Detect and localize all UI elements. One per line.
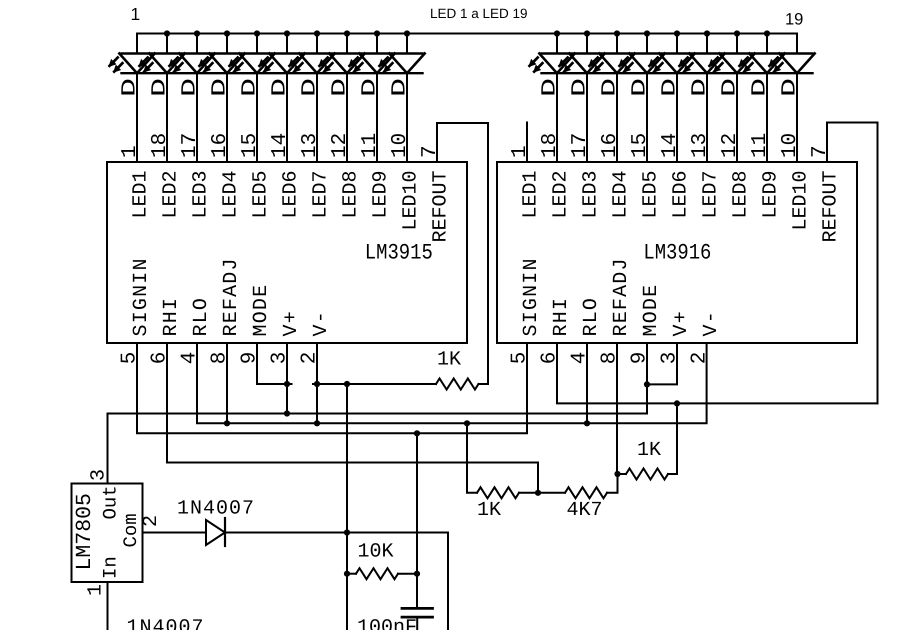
svg-text:18: 18 — [539, 133, 562, 158]
svg-text:LED3: LED3 — [580, 171, 603, 219]
svg-text:RHI: RHI — [550, 297, 573, 337]
LED D4 — [198, 54, 244, 74]
wire: D10 cathode to U1 — [406, 73, 408, 162]
svg-text:D: D — [689, 78, 712, 97]
svg-text:SIGNIN: SIGNIN — [130, 257, 153, 336]
junction: bus/LED anode — [314, 30, 320, 36]
wire: bus to LED anode — [286, 34, 288, 54]
LED D2 — [138, 54, 184, 74]
wire: D7 cathode to U1 — [316, 73, 318, 162]
capacitor C2 100nF — [402, 607, 433, 610]
wire: D11 cathode to U2 — [556, 73, 558, 162]
wire: D20 cathode line — [225, 533, 448, 630]
svg-text:18: 18 — [149, 133, 172, 158]
wire: right LED row cathode line — [542, 72, 813, 74]
junction: +5V / U1 V+ — [284, 410, 290, 416]
resistor R4 4K7 — [565, 487, 607, 498]
wire: R3 left lead — [467, 423, 477, 493]
svg-text:V+: V+ — [280, 310, 303, 336]
svg-text:V+: V+ — [670, 310, 693, 336]
svg-text:7: 7 — [419, 145, 442, 158]
svg-text:D: D — [269, 78, 292, 97]
wire: bus to LED anode — [736, 34, 738, 54]
junction: MODE/V+ tie — [284, 381, 290, 387]
wire: D1 cathode to U1 — [136, 73, 138, 162]
svg-text:5: 5 — [119, 352, 142, 365]
wire: SIGNIN-SIGNIN rail — [137, 343, 527, 433]
junction: V- / R1 rail — [314, 381, 320, 387]
LED D12 — [558, 54, 604, 74]
svg-text:LED1: LED1 — [520, 171, 543, 219]
svg-text:12: 12 — [719, 133, 742, 158]
svg-text:D: D — [119, 78, 142, 97]
wire: U3 Com to D20 anode — [143, 532, 207, 534]
LED D13 — [588, 54, 634, 74]
wire: R2 left lead — [347, 573, 356, 575]
wire: D19 cathode to U2 — [796, 73, 798, 162]
junction: bus/LED anode — [344, 30, 350, 36]
svg-text:11: 11 — [749, 133, 772, 158]
svg-text:1K: 1K — [477, 499, 501, 522]
op-amp U1 LM3915 body — [107, 162, 467, 343]
svg-text:RLO: RLO — [190, 297, 213, 337]
wire: D2 cathode to U1 — [166, 73, 168, 162]
wire: U2 pin1 stub — [526, 123, 528, 163]
svg-text:RHI: RHI — [160, 297, 183, 337]
svg-text:4K7: 4K7 — [567, 499, 603, 522]
diode D20 1N4007 — [206, 520, 225, 545]
svg-text:2: 2 — [689, 352, 712, 365]
wire: U2 RLO drop — [586, 343, 588, 423]
LED D16 — [678, 54, 724, 74]
wire: signal branch down — [416, 433, 418, 608]
LED D5 — [228, 54, 274, 74]
junction: bus/LED anode — [224, 30, 230, 36]
svg-text:4: 4 — [179, 352, 202, 365]
svg-text:MODE: MODE — [250, 284, 273, 337]
svg-text:LED2: LED2 — [550, 171, 573, 219]
svg-text:19: 19 — [785, 11, 803, 29]
svg-text:3: 3 — [88, 469, 111, 481]
svg-text:V-: V- — [700, 310, 723, 336]
wire: bus to LED anode — [406, 34, 408, 54]
wire: U2 MODE to V+ tie — [647, 343, 677, 384]
svg-text:10: 10 — [779, 133, 802, 158]
junction: branch down — [344, 381, 350, 387]
svg-text:REFOUT: REFOUT — [820, 171, 843, 243]
svg-text:LED8: LED8 — [730, 171, 753, 219]
svg-text:LED6: LED6 — [280, 171, 303, 219]
svg-text:LED5: LED5 — [640, 171, 663, 219]
junction: bus/LED anode — [194, 30, 200, 36]
svg-text:1N4007: 1N4007 — [177, 498, 255, 521]
wire: +5V rail 7805 Out to U2 MODE — [108, 343, 648, 484]
wire: U1 MODE to V+ tie — [257, 343, 292, 384]
wire: bus to LED anode — [346, 34, 348, 54]
svg-text:9: 9 — [629, 352, 652, 365]
svg-text:D: D — [719, 78, 742, 97]
svg-text:7: 7 — [809, 145, 832, 158]
wire: RLO/REFADJ/V- chain — [197, 343, 707, 423]
svg-text:12: 12 — [329, 133, 352, 158]
svg-text:RLO: RLO — [580, 297, 603, 337]
wire: D12 cathode to U2 — [586, 73, 588, 162]
wire: R1 to REFOUT drop — [479, 383, 489, 385]
LED D17 — [708, 54, 754, 74]
junction: V- U1 — [314, 420, 320, 426]
wire: U1 V- to R1 1K — [313, 383, 436, 385]
wire: right LED row anode line — [542, 52, 813, 54]
svg-text:D: D — [629, 78, 652, 97]
LED D10 — [378, 54, 424, 74]
LED D8 — [318, 54, 364, 74]
svg-text:13: 13 — [689, 133, 712, 158]
svg-text:In: In — [100, 556, 122, 579]
svg-text:14: 14 — [659, 133, 682, 158]
svg-text:Com: Com — [120, 513, 142, 547]
svg-text:LED8: LED8 — [340, 171, 363, 219]
svg-text:1N4007: 1N4007 — [127, 617, 205, 630]
svg-text:11: 11 — [359, 133, 382, 158]
junction: RLO U2 — [584, 420, 590, 426]
svg-text:4: 4 — [569, 352, 592, 365]
wire: bus to LED anode — [616, 34, 618, 54]
wire: R5 right lead up — [668, 403, 677, 474]
svg-text:1K: 1K — [637, 439, 661, 462]
svg-text:13: 13 — [299, 133, 322, 158]
svg-text:Out: Out — [100, 485, 122, 519]
wire: U1 REFOUT loop to R1 — [437, 123, 488, 384]
wire: D13 cathode to U2 — [616, 73, 618, 162]
junction: bus/LED anode — [704, 30, 710, 36]
wire: D14 cathode to U2 — [646, 73, 648, 162]
LED D18 — [738, 54, 784, 74]
wire: D9 cathode to U1 — [376, 73, 378, 162]
svg-text:D: D — [149, 78, 172, 97]
regulator U3 LM7805 body — [72, 484, 143, 583]
svg-text:16: 16 — [209, 133, 232, 158]
op-amp U2 LM3916 body — [497, 162, 857, 343]
svg-text:9: 9 — [239, 352, 262, 365]
svg-text:10K: 10K — [358, 541, 394, 564]
svg-text:MODE: MODE — [640, 284, 663, 337]
svg-text:LED9: LED9 — [370, 171, 393, 219]
wire: bus to LED anode — [376, 34, 378, 54]
svg-text:LED4: LED4 — [220, 171, 243, 219]
svg-text:D: D — [179, 78, 202, 97]
junction: D20 / branch — [344, 529, 350, 535]
svg-text:LED3: LED3 — [190, 171, 213, 219]
junction: R4/R5/REFADJ — [614, 471, 620, 477]
junction: bus/LED anode — [614, 30, 620, 36]
wire: bus to LED anode — [316, 34, 318, 54]
wire: U2 REFADJ drop to R5/R4 — [616, 343, 618, 474]
junction: bus/LED anode — [734, 30, 740, 36]
wire: bus to LED anode — [706, 34, 708, 54]
svg-text:LED4: LED4 — [610, 171, 633, 219]
LED D7 — [288, 54, 334, 74]
junction: chain / R3 lead — [464, 420, 470, 426]
wire: bus to LED anode — [226, 34, 228, 54]
svg-text:5: 5 — [509, 352, 532, 365]
junction: bus/LED anode — [764, 30, 770, 36]
resistor R2 10K — [356, 568, 398, 579]
LED D1 — [108, 54, 154, 74]
svg-text:100nF: 100nF — [357, 617, 417, 630]
wire: bus to LED anode — [256, 34, 258, 54]
wire: V- rail to C1 branch — [346, 384, 348, 533]
wire: branch to R2 — [346, 533, 348, 630]
wire: bus to LED anode — [646, 34, 648, 54]
svg-text:LM3915: LM3915 — [365, 241, 433, 266]
svg-text:LED5: LED5 — [250, 171, 273, 219]
svg-text:10: 10 — [389, 133, 412, 158]
resistor R5 1K — [626, 469, 668, 480]
junction: bus/LED anode — [674, 30, 680, 36]
wire: bus to LED anode — [166, 34, 168, 54]
svg-text:17: 17 — [569, 133, 592, 158]
svg-text:LED6: LED6 — [670, 171, 693, 219]
junction: R3/R4/RHI — [535, 490, 541, 496]
LED D9 — [348, 54, 394, 74]
svg-text:LED10: LED10 — [400, 171, 423, 231]
wire: left LED row anode line — [122, 52, 423, 54]
svg-text:LED2: LED2 — [160, 171, 183, 219]
svg-text:LED9: LED9 — [760, 171, 783, 219]
wire: D16 cathode to U2 — [706, 73, 708, 162]
wire: bus to LED anode — [586, 34, 588, 54]
wire: U1 RHI to divider — [167, 343, 538, 493]
svg-text:D: D — [209, 78, 232, 97]
wire: R4 left lead — [538, 492, 565, 494]
svg-text:2: 2 — [140, 515, 163, 527]
wire: D3 cathode to U1 — [196, 73, 198, 162]
svg-text:D: D — [569, 78, 592, 97]
svg-text:REFADJ: REFADJ — [220, 257, 243, 336]
wire: bus to LED anode — [196, 34, 198, 54]
junction: U2 MODE tie — [644, 381, 650, 387]
wire: D5 cathode to U1 — [256, 73, 258, 162]
LED D14 — [618, 54, 664, 74]
svg-text:LED1: LED1 — [130, 171, 153, 219]
svg-text:LED 1 a LED 19: LED 1 a LED 19 — [430, 6, 528, 21]
wire: D4 cathode to U1 — [226, 73, 228, 162]
wire: bus to LED anode — [556, 34, 558, 54]
svg-text:LM3916: LM3916 — [643, 241, 711, 266]
svg-text:3: 3 — [269, 352, 292, 365]
svg-text:3: 3 — [659, 352, 682, 365]
svg-text:LED7: LED7 — [700, 171, 723, 219]
junction: bus/LED anode — [644, 30, 650, 36]
wire: U1 V+ pin drop — [286, 343, 288, 414]
LED D11 — [528, 54, 574, 74]
svg-text:1: 1 — [119, 145, 142, 158]
junction: signal / 10K-C2 branch — [414, 430, 420, 436]
LED D6 — [258, 54, 304, 74]
svg-text:15: 15 — [239, 133, 262, 158]
wire: U3 In pin down — [107, 582, 109, 630]
wire: D17 cathode to U2 — [736, 73, 738, 162]
svg-text:D: D — [389, 78, 412, 97]
svg-text:1: 1 — [509, 145, 532, 158]
LED D19 — [768, 54, 814, 74]
resistor R1 1K — [436, 379, 478, 390]
svg-text:1K: 1K — [437, 349, 461, 372]
wire: U1 REFADJ drop — [226, 343, 228, 423]
junction: bus/LED anode — [404, 30, 410, 36]
svg-text:REFOUT: REFOUT — [430, 171, 453, 243]
svg-text:6: 6 — [539, 352, 562, 365]
svg-text:LM7805: LM7805 — [73, 493, 97, 570]
svg-text:D: D — [299, 78, 322, 97]
svg-text:15: 15 — [629, 133, 652, 158]
junction: RHI / R5 lead — [674, 400, 680, 406]
wire: R2 right lead — [398, 573, 417, 575]
LED D15 — [648, 54, 694, 74]
resistor R3 1K — [477, 487, 519, 498]
svg-text:8: 8 — [209, 352, 232, 365]
svg-text:D: D — [749, 78, 772, 97]
wire: R4 right lead up — [607, 474, 618, 493]
junction: bus/LED anode — [164, 30, 170, 36]
junction: bus/LED anode — [284, 30, 290, 36]
svg-text:D: D — [599, 78, 622, 97]
wire: U2 REFOUT loop to RHI — [827, 123, 878, 404]
svg-text:8: 8 — [599, 352, 622, 365]
svg-text:D: D — [539, 78, 562, 97]
junction: bus/LED anode — [374, 30, 380, 36]
svg-text:LED7: LED7 — [310, 171, 333, 219]
svg-text:D: D — [659, 78, 682, 97]
wire: U1 V- pin drop — [316, 343, 318, 423]
junction: R2 left — [344, 571, 350, 577]
junction: bus/LED anode — [254, 30, 260, 36]
wire: R5 left lead — [618, 473, 627, 475]
svg-text:REFADJ: REFADJ — [610, 257, 633, 336]
junction: R2 right / C2 — [414, 571, 420, 577]
svg-text:2: 2 — [299, 352, 322, 365]
svg-text:D: D — [359, 78, 382, 97]
wire: D18 cathode to U2 — [766, 73, 768, 162]
svg-text:D: D — [779, 78, 802, 97]
wire: left LED row cathode line — [122, 72, 423, 74]
svg-text:6: 6 — [149, 352, 172, 365]
wire: R3 to R4 — [519, 492, 538, 494]
wire: bus to LED anode — [676, 34, 678, 54]
wire: D15 cathode to U2 — [676, 73, 678, 162]
svg-text:14: 14 — [269, 133, 292, 158]
svg-text:LED10: LED10 — [790, 171, 813, 231]
wire: D6 cathode to U1 — [286, 73, 288, 162]
svg-text:1: 1 — [85, 584, 108, 596]
wire: U2 RHI to REFOUT line — [557, 343, 878, 403]
svg-text:D: D — [329, 78, 352, 97]
svg-text:16: 16 — [599, 133, 622, 158]
LED D3 — [168, 54, 214, 74]
wire: D8 cathode to U1 — [346, 73, 348, 162]
svg-text:V-: V- — [310, 310, 333, 336]
wire: bus to LED anode — [766, 34, 768, 54]
wire: LED anode supply bus — [137, 34, 797, 54]
svg-text:17: 17 — [179, 133, 202, 158]
svg-text:SIGNIN: SIGNIN — [520, 257, 543, 336]
junction: bus/LED anode — [554, 30, 560, 36]
junction: bus/LED anode — [584, 30, 590, 36]
junction: REFADJ U1 — [224, 420, 230, 426]
svg-text:D: D — [239, 78, 262, 97]
svg-text:1: 1 — [131, 4, 141, 24]
